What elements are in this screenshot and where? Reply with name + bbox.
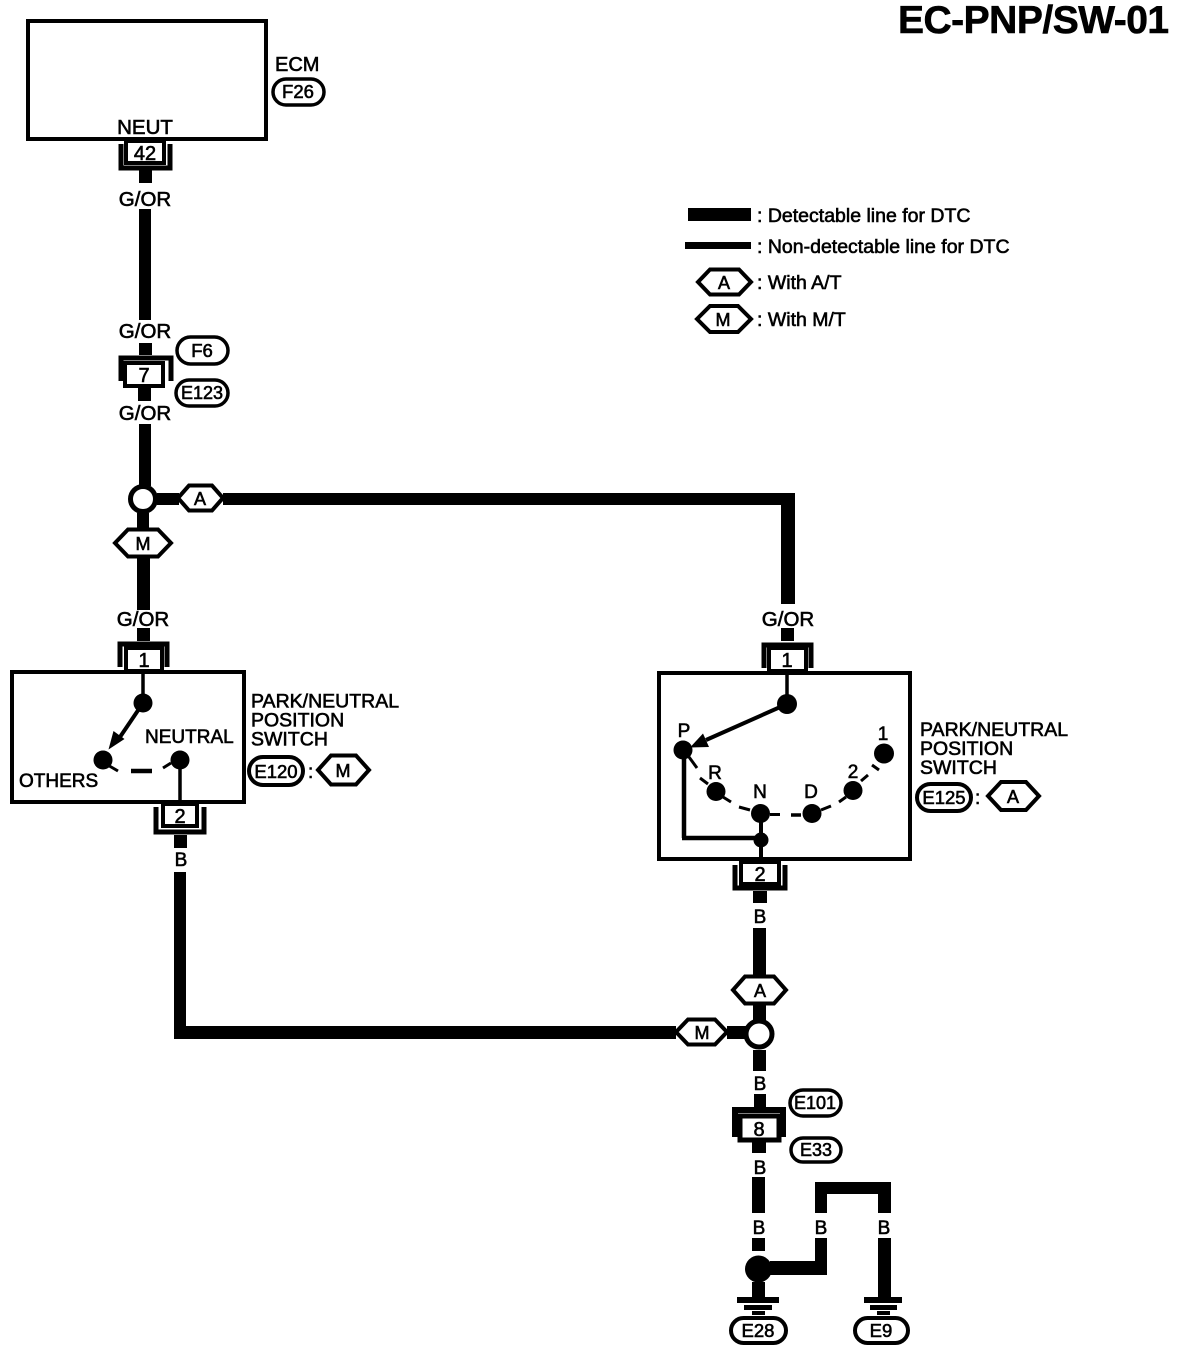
wire junction to M tag	[137, 513, 149, 530]
label left PARK/NEUTRAL POSITION SWITCH	[251, 691, 399, 751]
contact dot NEUTRAL	[171, 751, 190, 770]
svg-text:A: A	[1007, 787, 1019, 807]
svg-text:G/OR: G/OR	[117, 608, 169, 631]
tick right of N	[770, 813, 780, 816]
switch arm with arrow to OTHERS	[109, 703, 144, 750]
tick at P contact	[689, 757, 697, 768]
wire label B	[175, 850, 188, 871]
wire label G/OR	[119, 188, 171, 211]
wire label B (middle leg)	[815, 1218, 828, 1239]
tick right of R	[723, 797, 731, 802]
svg-text:D: D	[804, 782, 818, 803]
svg-text:G/OR: G/OR	[119, 188, 171, 211]
tick at 1 contact	[872, 765, 879, 770]
wire junction dot to ground E28	[752, 1282, 765, 1297]
svg-text:P: P	[678, 721, 691, 742]
svg-text::: :	[975, 788, 980, 809]
wire stub above ground junction	[752, 1238, 765, 1251]
svg-text:B: B	[753, 1218, 766, 1239]
junction dot under N	[754, 833, 769, 848]
wire stub to left connector 1	[137, 628, 150, 641]
wire left switch horizontal to M tag	[174, 1026, 676, 1039]
dashed arc segment	[131, 769, 152, 774]
contact dot R	[707, 782, 726, 801]
wire A tag to right circuit (horizontal)	[223, 493, 795, 505]
label ECM	[275, 54, 319, 76]
right leg upper segment	[878, 1194, 891, 1213]
wire pin1 to common contact	[141, 672, 145, 698]
wire label B	[754, 1158, 767, 1179]
legend text with A/T	[757, 272, 842, 294]
svg-text:2: 2	[848, 762, 859, 783]
wire M tag to bottom junction circle	[727, 1026, 747, 1039]
M/T tag hexagon at bottom junction	[676, 1020, 727, 1045]
svg-text:8: 8	[753, 1119, 764, 1141]
contact dot OTHERS	[94, 751, 113, 770]
right connector pin 1	[764, 645, 811, 672]
svg-text:B: B	[878, 1218, 891, 1239]
ground symbol E28	[737, 1297, 779, 1315]
ECM box	[28, 21, 266, 139]
label right PARK/NEUTRAL POSITION SWITCH	[920, 719, 1068, 779]
wire horizontal to junction under N	[682, 836, 757, 841]
wire right circuit vertical drop	[781, 493, 795, 604]
svg-text:E125: E125	[922, 787, 965, 808]
A/T tag hexagon at E125	[988, 782, 1039, 810]
label N	[753, 782, 767, 803]
legend non-detectable line swatch	[685, 242, 751, 249]
connector label E101	[790, 1090, 841, 1116]
svg-text:: With A/T: : With A/T	[757, 272, 842, 294]
right park/neutral position switch box E125	[659, 673, 910, 859]
label R	[708, 763, 722, 784]
svg-text:E101: E101	[794, 1093, 836, 1113]
svg-text:N: N	[753, 782, 767, 803]
svg-text:SWITCH: SWITCH	[920, 757, 997, 779]
tick left of N	[739, 807, 750, 810]
svg-text:F6: F6	[191, 340, 213, 361]
svg-text::: :	[308, 762, 313, 783]
A/T tag hexagon	[178, 486, 223, 511]
left connector pin 2	[156, 804, 204, 848]
legend detectable line swatch	[688, 208, 751, 221]
svg-text:A: A	[194, 489, 206, 509]
bottom junction circle (A/M merge)	[746, 1021, 772, 1047]
svg-text:EC-PNP/SW-01: EC-PNP/SW-01	[898, 0, 1169, 42]
svg-text:1: 1	[138, 650, 149, 672]
wire label G/OR	[119, 320, 171, 343]
tick at OTHERS contact	[106, 764, 118, 771]
svg-text:E123: E123	[181, 383, 223, 403]
svg-text:M: M	[716, 310, 731, 330]
wire A tag to junction circle	[753, 1003, 766, 1021]
svg-text:2: 2	[174, 806, 185, 828]
connector label E123	[176, 380, 228, 406]
legend M/T tag hexagon	[697, 306, 751, 332]
connector label E125	[917, 784, 971, 811]
svg-text:1: 1	[878, 724, 889, 745]
label OTHERS	[19, 771, 98, 792]
svg-text:G/OR: G/OR	[762, 608, 814, 631]
wire label B (right leg)	[878, 1218, 891, 1239]
wire stub to right connector 1	[781, 628, 794, 641]
svg-text:E28: E28	[742, 1320, 775, 1341]
wire junction dot to middle leg	[770, 1261, 827, 1275]
wire connector 8 down	[752, 1177, 765, 1213]
tick left of 2	[839, 797, 846, 802]
svg-text:OTHERS: OTHERS	[19, 771, 98, 792]
svg-text:2: 2	[754, 864, 765, 886]
svg-text:A: A	[718, 273, 730, 293]
ground junction dot	[745, 1256, 772, 1283]
tick at NEUTRAL contact	[163, 763, 171, 768]
wire label B	[754, 1074, 767, 1095]
svg-text:B: B	[754, 1158, 767, 1179]
right leg lower segment	[878, 1238, 891, 1297]
tick right of 2	[861, 775, 868, 781]
svg-text:: Detectable line for DTC: : Detectable line for DTC	[757, 205, 971, 227]
wire NEUTRAL contact to pin 2	[178, 760, 182, 825]
wire left switch down	[174, 872, 186, 1026]
svg-text:1: 1	[781, 650, 792, 672]
label 1	[878, 724, 889, 745]
legend text with M/T	[757, 309, 846, 331]
connector label E33	[791, 1138, 841, 1162]
contact dot N	[751, 804, 770, 823]
middle leg upper segment	[815, 1194, 827, 1213]
wire label G/OR	[117, 608, 169, 631]
colon separator right	[975, 788, 980, 809]
contact dot P	[674, 741, 693, 760]
label NEUTRAL	[145, 727, 234, 748]
svg-text:B: B	[815, 1218, 828, 1239]
wire label B right	[754, 907, 767, 928]
svg-text:R: R	[708, 763, 722, 784]
wire label G/OR	[119, 402, 171, 425]
wire M tag to left switch	[137, 557, 150, 610]
label 2	[848, 762, 859, 783]
tick right of D	[821, 806, 831, 810]
wire label G/OR right	[762, 608, 814, 631]
colon separator	[308, 762, 313, 783]
top bar of ground branch	[815, 1182, 891, 1194]
svg-text:E33: E33	[800, 1140, 832, 1160]
svg-text:E120: E120	[254, 761, 297, 782]
legend text non-detectable	[757, 236, 1010, 258]
svg-text:B: B	[754, 907, 767, 928]
svg-text:A: A	[754, 981, 766, 1001]
left park/neutral position switch box E120	[12, 672, 244, 802]
M/T tag hexagon at E120	[318, 756, 369, 785]
connector label F6	[177, 337, 228, 364]
svg-text:G/OR: G/OR	[119, 402, 171, 425]
ground label E9	[855, 1318, 908, 1343]
svg-text:NEUT: NEUT	[117, 116, 173, 139]
middle leg lower segment	[815, 1238, 827, 1275]
svg-text:7: 7	[138, 365, 149, 387]
connector label F26	[273, 79, 324, 105]
svg-text:: Non-detectable line for DTC: : Non-detectable line for DTC	[757, 236, 1010, 258]
wire connector 7 to junction	[139, 424, 151, 486]
common contact dot	[134, 694, 153, 713]
title EC-PNP/SW-01	[898, 0, 1169, 42]
wire ECM to connector 7	[139, 209, 151, 320]
right connector pin 2	[735, 862, 785, 903]
wire connector 2 to A tag	[753, 928, 766, 976]
legend text detectable	[757, 205, 971, 227]
svg-text:B: B	[175, 850, 188, 871]
switch arm with arrow to P	[690, 704, 787, 748]
svg-text:42: 42	[134, 143, 156, 165]
svg-text:G/OR: G/OR	[119, 320, 171, 343]
A/T tag hexagon bottom	[733, 977, 786, 1004]
label D	[804, 782, 818, 803]
junction circle (A/M split)	[131, 487, 156, 512]
svg-text:M: M	[336, 761, 351, 781]
contact dot 1	[874, 744, 894, 764]
wire P contact down	[682, 754, 687, 838]
tick left of R	[700, 778, 708, 784]
legend A/T tag hexagon	[698, 270, 751, 295]
wire junction circle down	[753, 1050, 766, 1071]
wire pin1 to common contact right	[785, 673, 789, 698]
connector pin 42 at ECM	[121, 141, 170, 183]
dashed arc segment N-D	[791, 813, 801, 817]
svg-text:M: M	[695, 1023, 710, 1043]
pin label NEUT	[117, 116, 173, 139]
in-line connector 8 (E101/E33)	[735, 1094, 783, 1153]
wire label B (left leg)	[753, 1218, 766, 1239]
svg-text:SWITCH: SWITCH	[251, 729, 328, 751]
label P	[678, 721, 691, 742]
connector label E120	[249, 757, 303, 785]
wire N contact to junction	[759, 813, 763, 858]
ground label E28	[731, 1318, 786, 1343]
in-line connector 7 (F6/E123)	[121, 343, 171, 401]
M/T tag hexagon	[115, 530, 171, 557]
left connector pin 1	[120, 644, 167, 672]
svg-text:M: M	[136, 534, 151, 554]
contact dot 2	[844, 781, 863, 800]
wire junction to A tag	[157, 493, 179, 505]
common contact dot right	[777, 694, 797, 714]
svg-text:NEUTRAL: NEUTRAL	[145, 727, 234, 748]
svg-text:B: B	[754, 1074, 767, 1095]
svg-text:: With M/T: : With M/T	[757, 309, 846, 331]
ground symbol E9	[864, 1297, 902, 1315]
svg-text:E9: E9	[870, 1320, 893, 1341]
contact dot D	[803, 804, 822, 823]
svg-text:F26: F26	[282, 81, 314, 102]
svg-text:ECM: ECM	[275, 54, 319, 76]
